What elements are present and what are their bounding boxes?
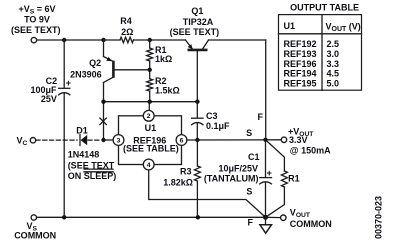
svg-text:5.0: 5.0: [327, 79, 340, 89]
terminal +VOUT: [281, 137, 286, 142]
svg-text:R4: R4: [120, 16, 132, 26]
svg-text:(TANTALUM): (TANTALUM): [204, 173, 259, 183]
svg-text:D1: D1: [76, 126, 88, 136]
node D1/pin3 junction: [101, 138, 105, 142]
ground: [265, 217, 267, 224]
wire C2 branch upper: [63, 40, 65, 88]
wire top rail right segment: [209, 39, 266, 41]
svg-text:2: 2: [147, 113, 151, 120]
transistor Q2: [70, 57, 113, 83]
pin 4: [143, 159, 154, 170]
wire junction to pin3: [104, 139, 114, 141]
svg-text:4.5: 4.5: [327, 69, 340, 79]
svg-text:COMMON: COMMON: [14, 230, 56, 240]
capacitor C1: [265, 140, 267, 178]
svg-text:+: +: [66, 78, 71, 88]
svg-text:1N4148: 1N4148: [68, 150, 100, 160]
svg-text:F: F: [258, 112, 264, 122]
node output common junction: [263, 215, 268, 220]
svg-text:(SEE TEXT): (SEE TEXT): [170, 27, 220, 37]
wire dashed sleep line left: [36, 139, 77, 141]
capacitor C2: [59, 87, 70, 89]
svg-text:00370-023: 00370-023: [374, 196, 384, 239]
X cut mark on sleep tie: [100, 118, 107, 125]
capacitor C3: [196, 102, 198, 118]
svg-text:U1: U1: [145, 123, 157, 133]
resistor R3: [196, 140, 198, 166]
resistor R4: [120, 37, 134, 43]
terminal VC: [30, 138, 35, 143]
svg-text:6: 6: [180, 137, 184, 144]
svg-text:3.0: 3.0: [327, 49, 340, 59]
svg-text:0.1μF: 0.1μF: [206, 121, 230, 131]
wire Q1 base down: [196, 50, 198, 102]
svg-text:OUTPUT TABLE: OUTPUT TABLE: [290, 2, 359, 12]
node junction at C2 branch: [62, 38, 66, 42]
svg-text:(SEE TABLE): (SEE TABLE): [123, 144, 179, 154]
wire top rail: [37, 39, 120, 41]
svg-text:4: 4: [147, 162, 151, 169]
svg-text:1.82kΩ: 1.82kΩ: [163, 177, 193, 187]
svg-text:REF195: REF195: [284, 79, 317, 89]
terminal VOUT COMMON: [281, 215, 286, 220]
node junction at R1 top: [148, 38, 152, 42]
wire collector force line down: [265, 40, 267, 140]
terminal +VS: [31, 37, 36, 42]
wire pin2 stub: [148, 102, 150, 111]
wire Q2 base to divider: [113, 69, 149, 71]
IC U1 REF196 body: [119, 116, 182, 165]
svg-text:REF196: REF196: [284, 59, 317, 69]
svg-text:25V: 25V: [41, 94, 57, 104]
svg-text:2Ω: 2Ω: [121, 27, 133, 37]
svg-text:U1: U1: [284, 21, 296, 31]
svg-text:10μF/25V: 10μF/25V: [218, 164, 258, 174]
svg-text:@ 150mA: @ 150mA: [290, 145, 331, 155]
svg-text:C1: C1: [248, 152, 260, 162]
transistor Q1: [170, 6, 220, 50]
wire Q2 collector down: [103, 83, 105, 141]
svg-text:REF193: REF193: [284, 49, 317, 59]
svg-text:TO 9V: TO 9V: [24, 15, 50, 25]
svg-text:Q2: Q2: [89, 58, 101, 68]
svg-text:R3: R3: [180, 167, 192, 177]
svg-text:(SEE TEXT): (SEE TEXT): [11, 25, 61, 35]
node junction at Q2 branch: [101, 38, 105, 42]
svg-text:+: +: [267, 168, 272, 178]
resistor R1 load: [266, 140, 285, 171]
wire bottom rail: [37, 216, 266, 218]
svg-text:2.5: 2.5: [327, 39, 340, 49]
output table: [279, 2, 362, 90]
wire C2 branch lower: [63, 93, 65, 217]
wire junction to VOUT COMMON terminal: [266, 216, 281, 218]
wire mid horizontal node line: [104, 101, 198, 103]
resistor R2: [149, 70, 151, 79]
svg-text:F: F: [247, 217, 253, 227]
svg-text:REF192: REF192: [284, 39, 317, 49]
svg-text:S: S: [246, 128, 252, 138]
svg-text:2N3906: 2N3906: [70, 69, 102, 79]
svg-text:1.5kΩ: 1.5kΩ: [155, 86, 180, 96]
svg-text:3: 3: [117, 137, 121, 144]
node junction R1/R2/base: [148, 68, 152, 72]
svg-text:S: S: [246, 187, 252, 197]
wire dashed sleep line right: [88, 139, 101, 141]
wire pin6 output line: [187, 139, 281, 141]
svg-text:TIP32A: TIP32A: [183, 17, 214, 27]
svg-text:R1: R1: [288, 173, 300, 183]
svg-text:3.3: 3.3: [327, 59, 340, 69]
svg-text:3.3V: 3.3V: [289, 135, 308, 145]
label +VS supply: [11, 4, 61, 35]
wire pin4 sense line: [149, 170, 266, 217]
svg-text:Q1: Q1: [191, 6, 203, 16]
terminal VS COMMON: [31, 215, 36, 220]
pin 3: [113, 135, 124, 146]
resistor R1: [149, 40, 151, 48]
pin 2: [143, 110, 154, 121]
svg-text:COMMON: COMMON: [290, 219, 332, 229]
svg-text:REF194: REF194: [284, 69, 317, 79]
wire Q2 emitter feed: [103, 40, 105, 57]
pin 6: [176, 135, 187, 146]
svg-text:C3: C3: [206, 111, 218, 121]
svg-text:1kΩ: 1kΩ: [155, 54, 172, 64]
